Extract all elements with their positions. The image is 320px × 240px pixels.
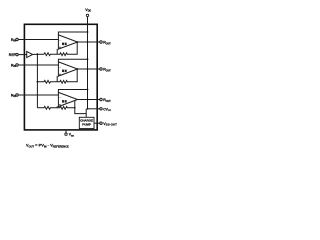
svg-text:-: -	[60, 65, 61, 69]
svg-text:-: -	[60, 96, 61, 100]
svg-text:ROUT: ROUT	[103, 41, 111, 46]
svg-text:ROUT: ROUT	[103, 68, 111, 73]
svg-text:RIN: RIN	[11, 94, 16, 99]
svg-text:RIN: RIN	[11, 38, 16, 43]
svg-text:VDD: VDD	[85, 8, 91, 13]
svg-text:-: -	[60, 38, 61, 42]
svg-text:VSS: VSS	[69, 133, 75, 138]
svg-text:VOUT = PVIN - VREFERENCE: VOUT = PVIN - VREFERENCE	[26, 143, 69, 149]
svg-text:VSS-OUT: VSS-OUT	[103, 122, 117, 127]
svg-text:REF: REF	[9, 53, 17, 57]
svg-text:RIN: RIN	[11, 64, 16, 69]
svg-text:PUMP: PUMP	[82, 123, 91, 127]
svg-text:ROUT: ROUT	[103, 98, 111, 103]
svg-text:CVCC: CVCC	[103, 107, 111, 112]
